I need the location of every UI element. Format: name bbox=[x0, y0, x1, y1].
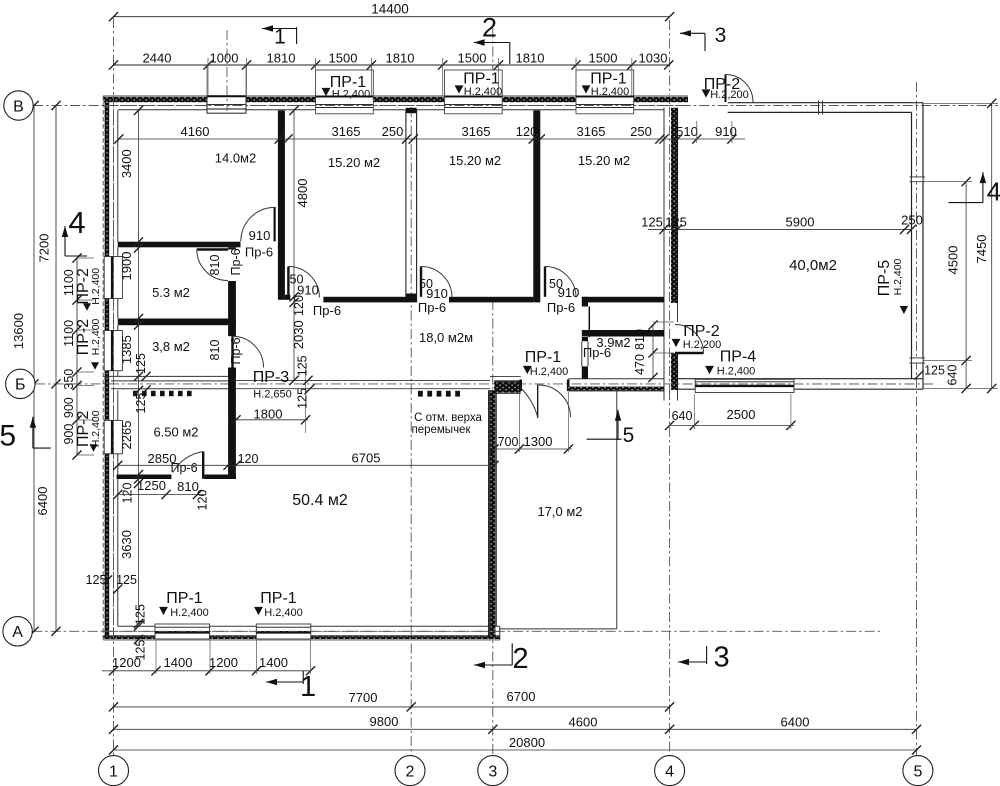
svg-text:Н.2,400: Н.2,400 bbox=[530, 366, 569, 378]
svg-text:1900: 1900 bbox=[119, 252, 134, 281]
svg-text:6400: 6400 bbox=[35, 487, 50, 516]
svg-text:Пр-6: Пр-6 bbox=[245, 245, 273, 260]
svg-text:2: 2 bbox=[482, 13, 497, 43]
svg-text:1500: 1500 bbox=[589, 51, 618, 66]
svg-text:5: 5 bbox=[0, 420, 16, 453]
svg-text:Б: Б bbox=[15, 377, 26, 394]
svg-text:1810: 1810 bbox=[267, 51, 296, 66]
svg-text:7700: 7700 bbox=[349, 690, 378, 705]
svg-text:4: 4 bbox=[665, 763, 674, 780]
svg-text:910: 910 bbox=[426, 286, 448, 301]
svg-text:2030: 2030 bbox=[291, 320, 306, 349]
svg-text:Н.2,400: Н.2,400 bbox=[332, 88, 371, 100]
svg-text:14400: 14400 bbox=[371, 2, 409, 17]
svg-text:15.20 м2: 15.20 м2 bbox=[449, 153, 501, 168]
svg-text:4160: 4160 bbox=[181, 124, 210, 139]
svg-text:ПР-4: ПР-4 bbox=[720, 349, 757, 366]
svg-text:7200: 7200 bbox=[36, 234, 51, 263]
svg-text:14.0м2: 14.0м2 bbox=[215, 151, 256, 166]
svg-text:910: 910 bbox=[297, 283, 319, 298]
svg-text:Пр-6: Пр-6 bbox=[229, 337, 243, 364]
svg-text:2500: 2500 bbox=[727, 407, 756, 422]
svg-text:3165: 3165 bbox=[462, 124, 491, 139]
svg-text:Н.2,400: Н.2,400 bbox=[892, 258, 904, 295]
svg-text:Пр-6: Пр-6 bbox=[313, 303, 341, 318]
svg-text:125: 125 bbox=[134, 353, 148, 374]
svg-text:3: 3 bbox=[488, 763, 497, 780]
svg-text:120: 120 bbox=[292, 295, 306, 316]
svg-text:2265: 2265 bbox=[119, 421, 134, 450]
svg-text:470: 470 bbox=[633, 354, 647, 375]
svg-text:3400: 3400 bbox=[119, 149, 134, 178]
svg-text:3165: 3165 bbox=[577, 124, 606, 139]
svg-text:2: 2 bbox=[406, 763, 415, 780]
svg-text:125: 125 bbox=[296, 355, 310, 376]
svg-text:перемычек: перемычек bbox=[411, 424, 471, 436]
svg-text:Н.2,400: Н.2,400 bbox=[591, 86, 630, 98]
svg-text:Н.2,200: Н.2,200 bbox=[683, 339, 722, 351]
svg-text:Н.2,400: Н.2,400 bbox=[717, 366, 756, 378]
svg-text:120: 120 bbox=[238, 452, 259, 466]
svg-text:3630: 3630 bbox=[119, 530, 134, 559]
svg-text:7450: 7450 bbox=[974, 235, 989, 264]
svg-text:120: 120 bbox=[196, 490, 210, 511]
svg-text:1400: 1400 bbox=[164, 655, 193, 670]
svg-text:Н.2,400: Н.2,400 bbox=[170, 607, 209, 619]
svg-text:Пр-6: Пр-6 bbox=[229, 248, 243, 275]
svg-text:3,8 м2: 3,8 м2 bbox=[152, 339, 190, 354]
svg-text:125: 125 bbox=[641, 215, 663, 230]
svg-text:6.50 м2: 6.50 м2 bbox=[153, 425, 198, 440]
svg-text:А: А bbox=[12, 624, 23, 641]
svg-text:1000: 1000 bbox=[210, 51, 239, 66]
svg-text:125: 125 bbox=[116, 573, 137, 587]
svg-text:810: 810 bbox=[208, 255, 222, 276]
svg-text:С отм. верха: С отм. верха bbox=[414, 412, 482, 424]
svg-text:250: 250 bbox=[382, 124, 404, 139]
svg-text:3: 3 bbox=[715, 24, 727, 47]
svg-text:1500: 1500 bbox=[458, 51, 487, 66]
svg-text:3165: 3165 bbox=[332, 124, 361, 139]
svg-text:700: 700 bbox=[498, 435, 519, 449]
svg-text:6705: 6705 bbox=[352, 451, 381, 466]
svg-text:ПР-3: ПР-3 bbox=[253, 369, 290, 386]
svg-text:2440: 2440 bbox=[143, 51, 172, 66]
svg-text:5.3 м2: 5.3 м2 bbox=[152, 285, 190, 300]
svg-text:Н.2,400: Н.2,400 bbox=[464, 86, 503, 98]
svg-text:3: 3 bbox=[714, 642, 730, 674]
svg-text:810: 810 bbox=[208, 340, 222, 361]
svg-text:Пр-6: Пр-6 bbox=[583, 345, 611, 360]
svg-text:4800: 4800 bbox=[295, 179, 310, 208]
svg-text:Н.2,400: Н.2,400 bbox=[90, 318, 102, 355]
svg-text:1500: 1500 bbox=[329, 51, 358, 66]
svg-text:ПР-1: ПР-1 bbox=[166, 590, 203, 607]
svg-text:18,0 м2м: 18,0 м2м bbox=[419, 330, 473, 345]
svg-text:1100: 1100 bbox=[62, 269, 76, 296]
svg-text:13600: 13600 bbox=[11, 313, 26, 349]
svg-text:15.20 м2: 15.20 м2 bbox=[578, 153, 630, 168]
svg-text:Н.2,400: Н.2,400 bbox=[264, 607, 303, 619]
svg-text:ПР-5: ПР-5 bbox=[876, 260, 893, 297]
svg-text:1200: 1200 bbox=[209, 655, 238, 670]
svg-text:125: 125 bbox=[924, 364, 945, 378]
svg-text:17,0 м2: 17,0 м2 bbox=[537, 504, 582, 519]
svg-text:125: 125 bbox=[134, 604, 148, 625]
svg-text:910: 910 bbox=[558, 285, 580, 300]
svg-text:1: 1 bbox=[300, 671, 316, 703]
svg-text:2: 2 bbox=[513, 643, 529, 675]
svg-text:Н.2,400: Н.2,400 bbox=[90, 410, 102, 447]
svg-text:910: 910 bbox=[715, 124, 737, 139]
svg-text:50.4 м2: 50.4 м2 bbox=[292, 492, 348, 509]
svg-text:5: 5 bbox=[913, 763, 922, 780]
svg-text:125: 125 bbox=[134, 393, 148, 414]
svg-text:1200: 1200 bbox=[112, 655, 141, 670]
svg-text:4600: 4600 bbox=[569, 715, 598, 730]
svg-text:120: 120 bbox=[121, 483, 135, 504]
svg-text:6400: 6400 bbox=[781, 715, 810, 730]
svg-text:Н.2,200: Н.2,200 bbox=[710, 89, 749, 101]
svg-text:4500: 4500 bbox=[946, 246, 961, 275]
svg-text:1810: 1810 bbox=[386, 51, 415, 66]
svg-text:250: 250 bbox=[630, 124, 652, 139]
svg-text:1385: 1385 bbox=[119, 335, 134, 364]
svg-text:Н.2,650: Н.2,650 bbox=[253, 389, 292, 401]
svg-text:ПР-1: ПР-1 bbox=[525, 349, 562, 366]
svg-text:810: 810 bbox=[633, 329, 647, 350]
svg-text:В: В bbox=[13, 98, 24, 115]
svg-text:1030: 1030 bbox=[639, 51, 668, 66]
svg-text:20800: 20800 bbox=[509, 735, 545, 750]
svg-text:1300: 1300 bbox=[524, 434, 553, 449]
svg-text:9800: 9800 bbox=[370, 714, 399, 729]
svg-text:ПР-2: ПР-2 bbox=[683, 323, 720, 340]
svg-text:15.20 м2: 15.20 м2 bbox=[328, 155, 380, 170]
svg-text:640: 640 bbox=[946, 365, 960, 386]
svg-text:640: 640 bbox=[672, 409, 693, 423]
svg-text:4: 4 bbox=[987, 177, 1000, 207]
svg-text:1250: 1250 bbox=[137, 478, 166, 493]
svg-text:900: 900 bbox=[62, 397, 76, 418]
svg-text:Н.2,400: Н.2,400 bbox=[90, 268, 102, 305]
svg-text:1100: 1100 bbox=[62, 320, 76, 347]
svg-text:40,0м2: 40,0м2 bbox=[789, 257, 837, 274]
svg-text:1400: 1400 bbox=[259, 655, 288, 670]
svg-text:350: 350 bbox=[62, 369, 76, 390]
svg-text:1800: 1800 bbox=[254, 407, 283, 422]
svg-text:5: 5 bbox=[623, 424, 635, 447]
svg-text:ПР-1: ПР-1 bbox=[260, 590, 297, 607]
svg-text:Пр-6: Пр-6 bbox=[547, 300, 575, 315]
svg-text:1: 1 bbox=[274, 26, 286, 49]
svg-text:250: 250 bbox=[901, 213, 923, 228]
svg-text:120: 120 bbox=[516, 124, 538, 139]
svg-text:900: 900 bbox=[62, 424, 76, 445]
svg-text:1810: 1810 bbox=[516, 51, 545, 66]
svg-text:125: 125 bbox=[665, 215, 687, 230]
svg-text:4: 4 bbox=[68, 205, 85, 240]
svg-text:Пр-6: Пр-6 bbox=[170, 461, 197, 475]
svg-text:1: 1 bbox=[109, 763, 118, 780]
svg-text:Пр-6: Пр-6 bbox=[418, 300, 446, 315]
svg-text:5900: 5900 bbox=[786, 215, 815, 230]
svg-text:6700: 6700 bbox=[507, 689, 536, 704]
svg-text:910: 910 bbox=[249, 228, 271, 243]
svg-text:510: 510 bbox=[676, 124, 698, 139]
